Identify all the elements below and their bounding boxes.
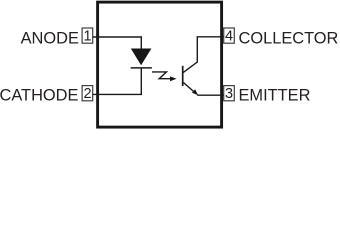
svg-text:COLLECTOR: COLLECTOR — [239, 29, 339, 47]
svg-text:3: 3 — [225, 86, 233, 102]
svg-text:CATHODE: CATHODE — [0, 87, 78, 105]
svg-text:4: 4 — [225, 29, 233, 45]
svg-text:1: 1 — [83, 29, 91, 45]
svg-text:2: 2 — [83, 86, 91, 102]
svg-text:EMITTER: EMITTER — [239, 87, 311, 105]
svg-text:ANODE: ANODE — [21, 29, 79, 47]
